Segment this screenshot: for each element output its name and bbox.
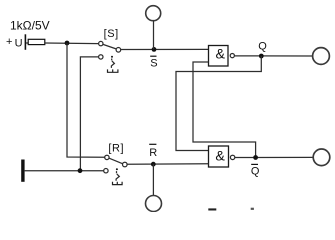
svg-text:+: + — [6, 36, 12, 48]
svg-text:S: S — [150, 57, 157, 69]
svg-text:[S]: [S] — [104, 28, 119, 40]
svg-text:U: U — [15, 38, 23, 50]
svg-text:R: R — [149, 147, 157, 159]
svg-text:Q: Q — [251, 165, 260, 177]
svg-text:Q: Q — [258, 41, 267, 53]
svg-text:[R]: [R] — [108, 142, 124, 154]
svg-text:&: & — [216, 47, 226, 63]
svg-text:1kΩ/5V: 1kΩ/5V — [10, 19, 50, 33]
svg-text:&: & — [215, 149, 225, 165]
